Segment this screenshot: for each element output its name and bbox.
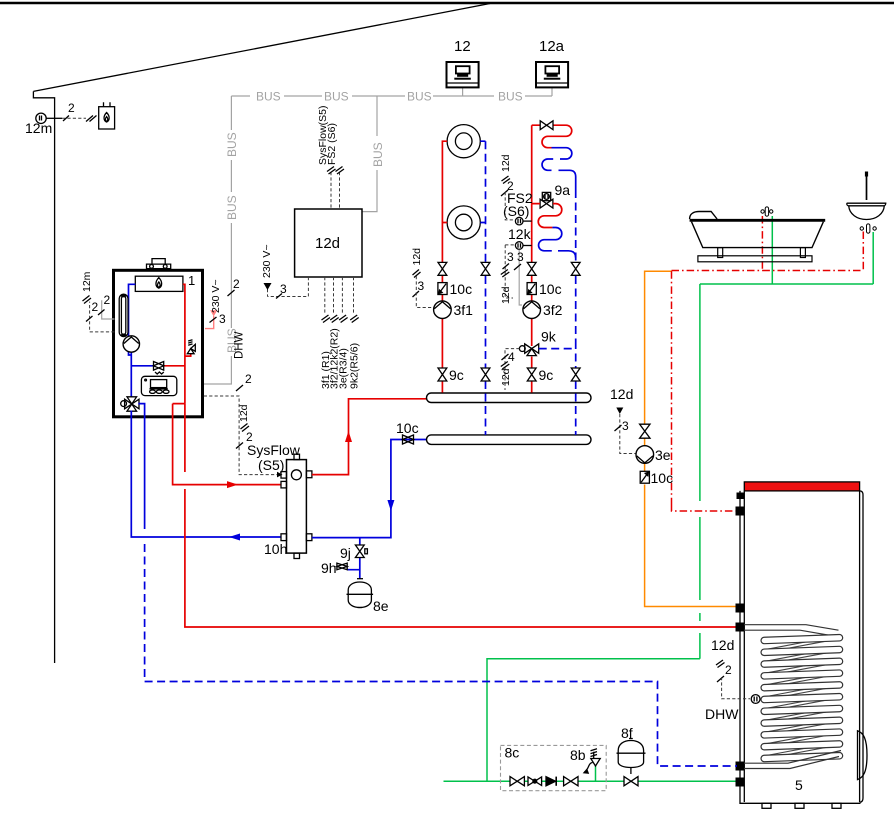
svg-text:9c: 9c [539,367,554,383]
svg-text:12d: 12d [411,248,423,266]
svg-text:12k: 12k [508,226,532,242]
svg-text:12: 12 [454,38,471,55]
svg-text:12m: 12m [81,271,93,292]
svg-text:10c: 10c [651,470,674,486]
svg-text:12d: 12d [500,154,512,172]
svg-text:2: 2 [507,179,514,193]
svg-text:230 V~: 230 V~ [261,244,273,278]
svg-text:3: 3 [219,312,226,326]
svg-text:2: 2 [725,663,732,677]
svg-text:3: 3 [280,282,287,296]
svg-text:12d: 12d [610,386,633,402]
svg-text:(S5): (S5) [258,457,284,473]
svg-text:9k: 9k [541,329,557,345]
svg-text:12m: 12m [25,120,52,136]
svg-text:10c: 10c [539,281,562,297]
svg-text:BUS: BUS [371,142,385,167]
svg-text:3e: 3e [655,447,671,463]
svg-text:3f2: 3f2 [543,302,563,318]
svg-text:SysFlow: SysFlow [247,442,301,458]
svg-text:10c: 10c [450,281,473,297]
svg-text:12d: 12d [500,368,512,386]
svg-text:DHW: DHW [234,331,246,359]
svg-text:2: 2 [104,293,111,307]
svg-text:12a: 12a [539,38,565,55]
svg-text:2: 2 [92,300,99,314]
svg-text:3: 3 [517,250,524,264]
svg-text:10c: 10c [396,420,419,436]
svg-text:2: 2 [245,372,252,386]
svg-text:2: 2 [68,101,75,115]
svg-text:FS2 (S6): FS2 (S6) [326,123,338,165]
svg-text:DHW: DHW [705,706,739,722]
svg-text:9k2(R5/6): 9k2(R5/6) [349,343,361,389]
svg-text:12d: 12d [711,637,734,653]
svg-text:230 V~: 230 V~ [210,279,222,313]
svg-text:3: 3 [507,250,514,264]
svg-text:BUS: BUS [225,132,239,157]
svg-text:9c: 9c [449,367,464,383]
svg-text:(S6): (S6) [503,203,529,219]
svg-text:12d: 12d [238,404,250,422]
svg-text:9j: 9j [340,545,351,561]
svg-text:4: 4 [508,350,515,364]
svg-text:1: 1 [188,273,195,288]
svg-text:BUS: BUS [256,90,281,104]
svg-text:3: 3 [622,419,629,433]
svg-text:9h: 9h [321,560,337,576]
svg-text:BUS: BUS [324,90,349,104]
svg-text:3f1: 3f1 [454,302,474,318]
svg-text:BUS: BUS [407,90,432,104]
svg-text:12d: 12d [500,286,512,304]
svg-text:9a: 9a [555,182,571,198]
svg-text:8e: 8e [373,598,389,614]
svg-text:5: 5 [795,777,803,793]
svg-text:BUS: BUS [225,195,239,220]
svg-text:8c: 8c [505,745,520,761]
svg-text:12d: 12d [315,235,340,252]
svg-text:8b: 8b [570,747,586,763]
svg-text:BUS: BUS [498,90,523,104]
svg-text:10h: 10h [264,541,287,557]
svg-text:2: 2 [233,277,240,291]
